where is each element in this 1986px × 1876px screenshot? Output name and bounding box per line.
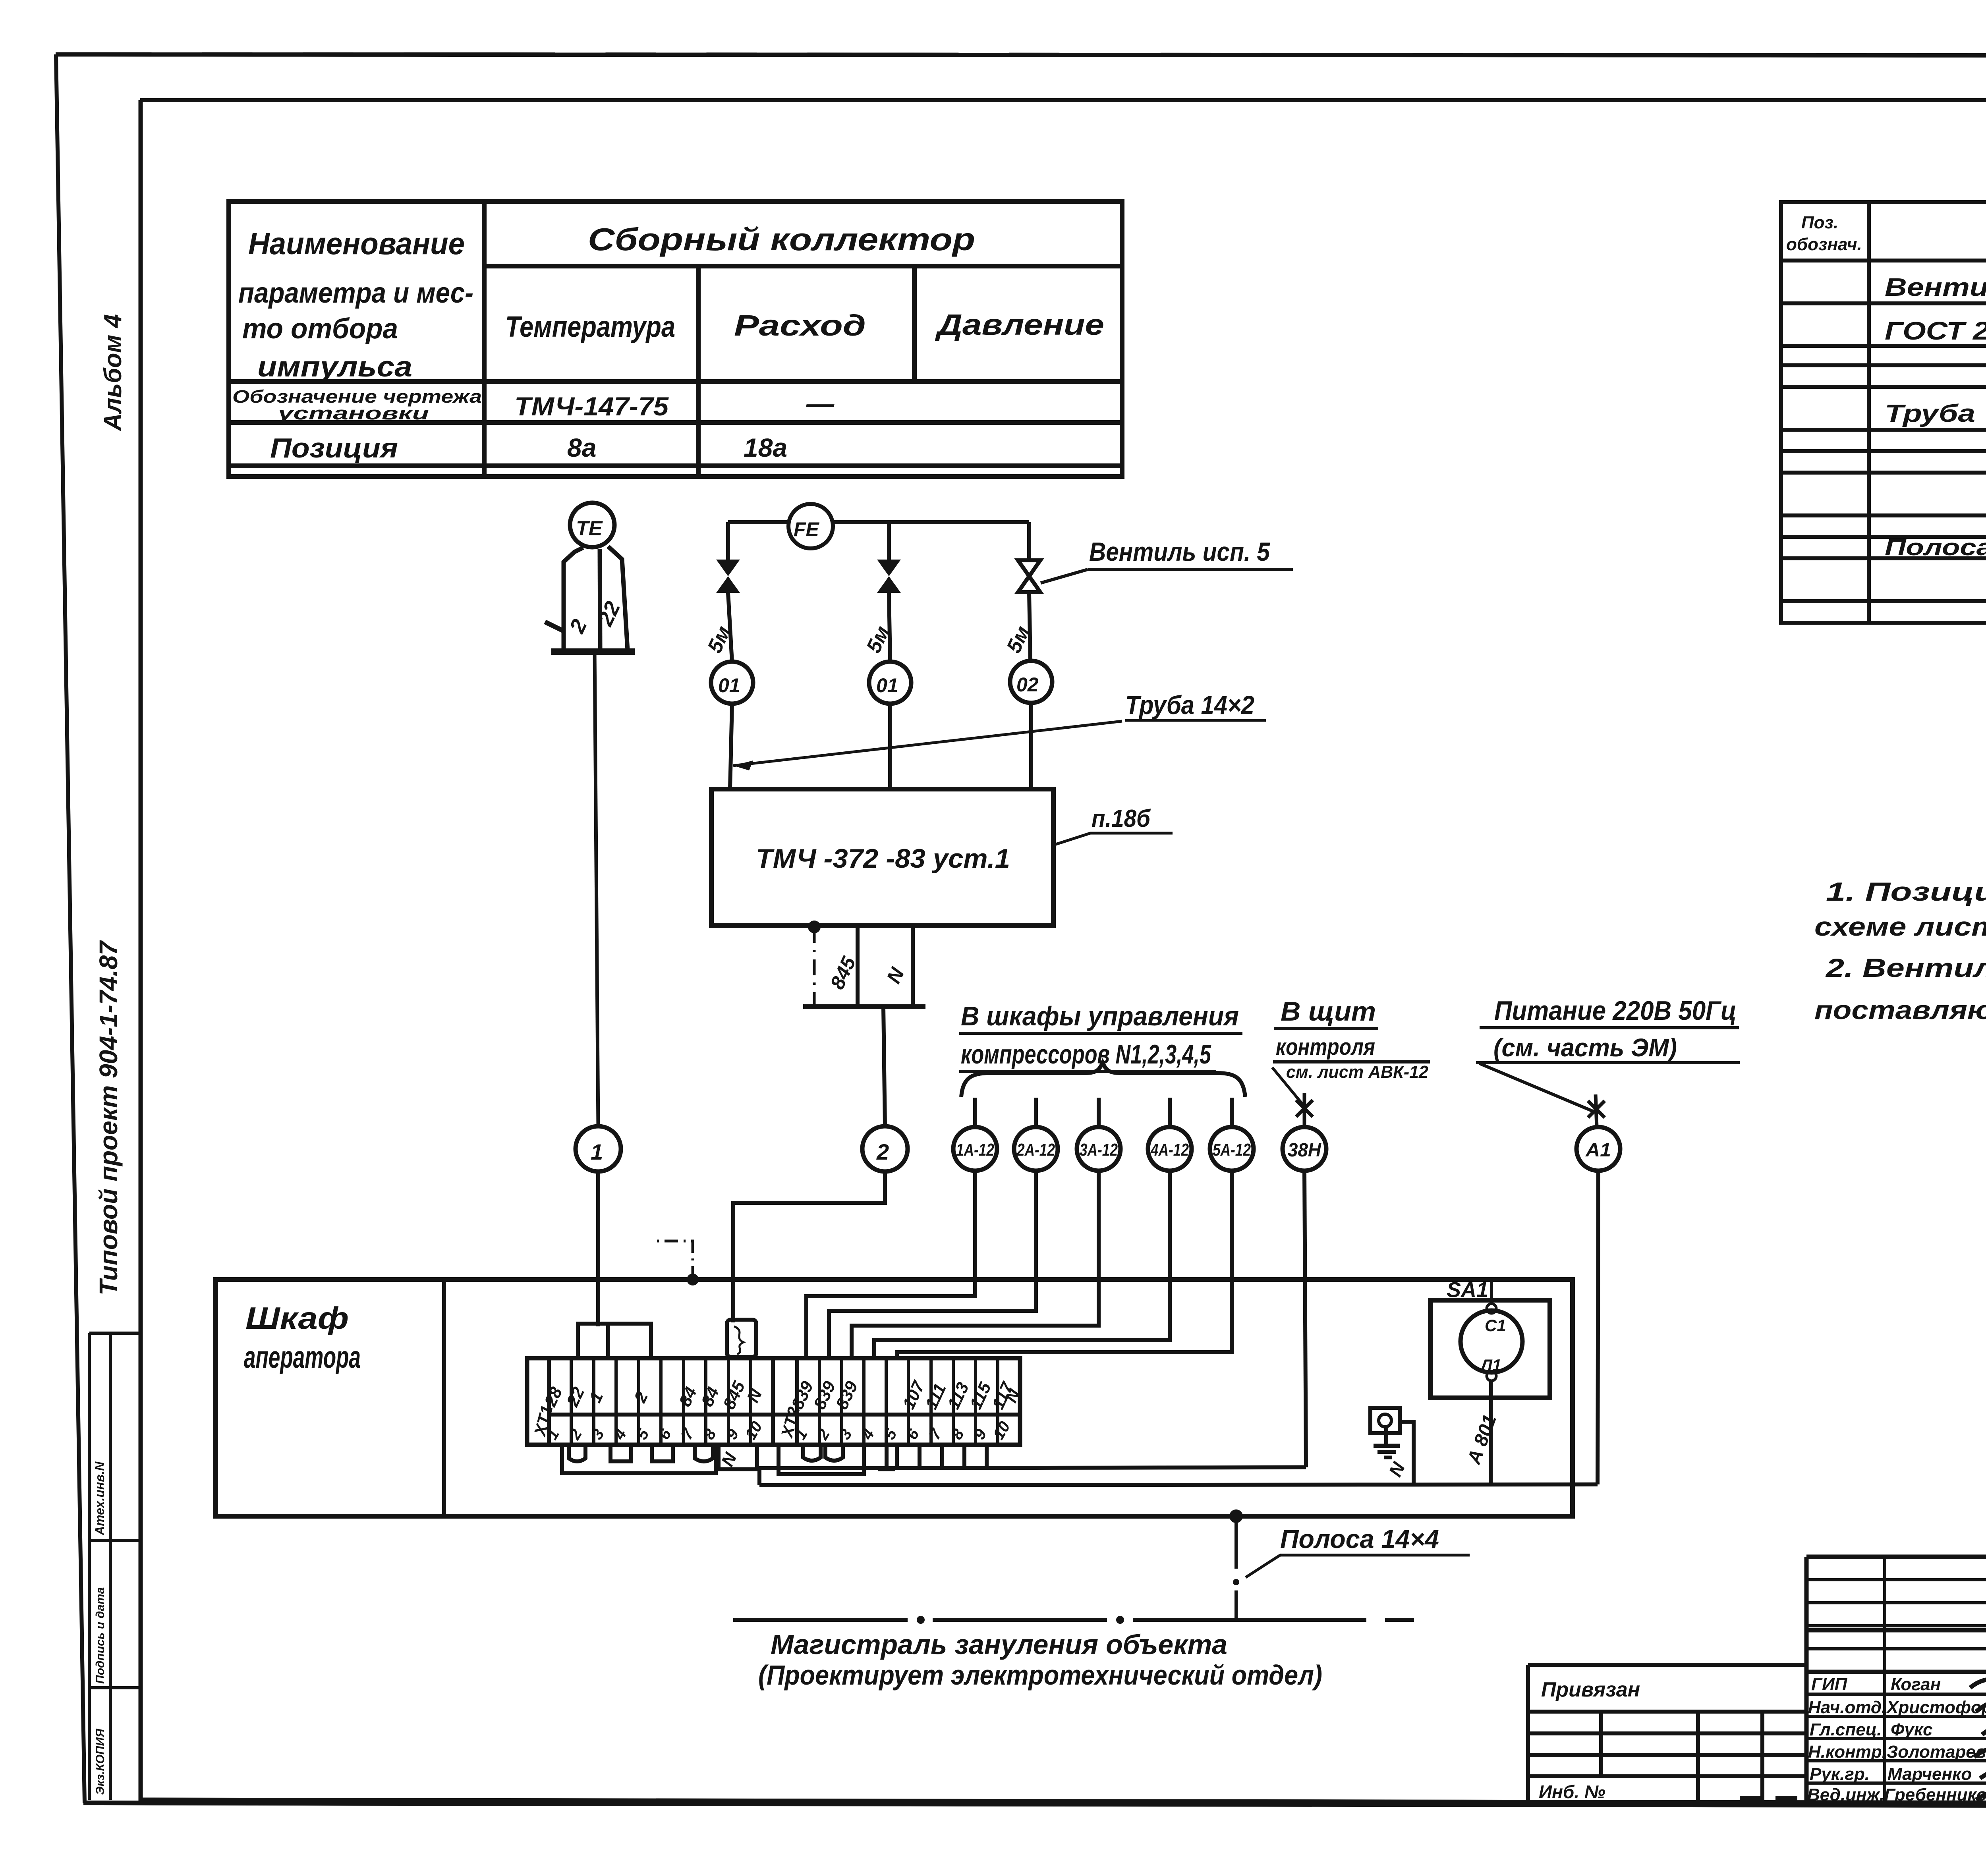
brace stub to 2А-12 bbox=[1034, 1098, 1038, 1127]
svg-text:Фукс: Фукс bbox=[1891, 1720, 1933, 1739]
shield dash-dot drop from box bbox=[813, 927, 816, 1007]
attachment table Привязан bbox=[1528, 1665, 1806, 1802]
terminal strip outline bbox=[527, 1358, 1020, 1445]
pipe branch 1 lower segment bbox=[730, 704, 732, 789]
svg-text:Подпись и дата: Подпись и дата bbox=[94, 1587, 107, 1684]
svg-text:Христофоров: Христофоров bbox=[1886, 1698, 1986, 1717]
svg-text:импульса: импульса bbox=[257, 351, 412, 383]
svg-text:установки: установки bbox=[277, 403, 429, 423]
svg-text:Шкаф: Шкаф bbox=[245, 1301, 349, 1336]
pipe branch 3 lower segment bbox=[1029, 703, 1033, 789]
wire А1 down bbox=[1598, 1171, 1598, 1484]
valve V3 (open, Вентиль исп.5) bbox=[1018, 560, 1040, 592]
svg-text:ГОСТ 23230-78: ГОСТ 23230-78 bbox=[1885, 317, 1986, 345]
svg-text:Полоса 14×4: Полоса 14×4 bbox=[1885, 535, 1986, 560]
svg-text:ТМЧ -372 -83 уст.1: ТМЧ -372 -83 уст.1 bbox=[756, 843, 1010, 874]
sheet outer border left bbox=[56, 54, 85, 1803]
svg-text:Н.контр.: Н.контр. bbox=[1808, 1742, 1887, 1762]
device box ТМЧ-372-83 уст.1 bbox=[711, 789, 1053, 926]
strip conductor down from dot bbox=[1234, 1516, 1238, 1569]
XT1 terminal numbers (rotated) bbox=[543, 1419, 766, 1443]
shield housing box with squiggle bbox=[727, 1320, 756, 1357]
brace stub to 5А-12 bbox=[1230, 1098, 1234, 1127]
wire cable2 down and left into shield box bbox=[733, 1172, 885, 1322]
instrument TE circle bbox=[570, 503, 614, 547]
svg-text:Труба: Труба bbox=[1885, 400, 1975, 427]
clamp stub bbox=[878, 1445, 895, 1469]
wire 38Н down bbox=[1304, 1171, 1306, 1467]
svg-text:компрессоров N1,2,3,4,5: компрессоров N1,2,3,4,5 bbox=[961, 1039, 1211, 1069]
curly brace over compressor cables bbox=[961, 1063, 1245, 1097]
svg-text:Привязан: Привязан bbox=[1541, 1678, 1640, 1701]
earth electrode box bbox=[1370, 1408, 1400, 1433]
pipe branch 2 upper segment bbox=[887, 522, 891, 562]
cabinet divider bbox=[442, 1280, 446, 1516]
svg-text:Поз.: Поз. bbox=[1801, 213, 1838, 232]
impulse pipe header line bbox=[728, 520, 1029, 524]
svg-text:—: — bbox=[806, 388, 835, 419]
box output wire 845 bbox=[856, 926, 860, 1007]
svg-text:02: 02 bbox=[1016, 674, 1039, 696]
lamp C1/Л1 circle bbox=[1461, 1310, 1522, 1372]
brace stub to 3А-12 bbox=[1097, 1098, 1101, 1127]
signature rows text bbox=[1807, 1675, 1986, 1805]
svg-text:(см. часть ЭМ): (см. часть ЭМ) bbox=[1493, 1033, 1677, 1062]
connector housing box B on strip bbox=[608, 1324, 651, 1358]
pipe branch 2 lower segment bbox=[888, 704, 892, 789]
cable circle 4А-12 bbox=[1148, 1127, 1192, 1171]
svg-text:2: 2 bbox=[876, 1139, 889, 1164]
svg-text:Типовой проект 904-1-74.87: Типовой проект 904-1-74.87 bbox=[94, 940, 123, 1295]
svg-text:38Н: 38Н bbox=[1288, 1140, 1321, 1161]
operator cabinet rectangle bbox=[216, 1280, 1573, 1516]
svg-text:В щит: В щит bbox=[1281, 996, 1376, 1027]
cable circle 1А-12 bbox=[953, 1127, 997, 1171]
svg-text:5А-12: 5А-12 bbox=[1213, 1140, 1251, 1160]
svg-text:Давление: Давление bbox=[935, 308, 1104, 341]
terminal strip row divider bbox=[549, 1413, 1020, 1417]
svg-text:параметра и мес-: параметра и мес- bbox=[238, 277, 473, 309]
svg-text:В шкафы управления: В шкафы управления bbox=[961, 1001, 1239, 1031]
svg-text:Марченко: Марченко bbox=[1887, 1764, 1972, 1784]
svg-text:обознач.: обознач. bbox=[1786, 235, 1862, 254]
N box stub to bus bbox=[757, 1469, 761, 1485]
svg-text:Рук.гр.: Рук.гр. bbox=[1810, 1764, 1870, 1784]
sheet outer border bottom bbox=[83, 1803, 1986, 1806]
sheet outer border top bbox=[56, 54, 1986, 56]
under-strip clamp bracket XT1 bbox=[562, 1445, 716, 1473]
orifice cable circle 01 (branch2) bbox=[869, 662, 911, 704]
revision grid bbox=[1806, 1557, 1986, 1672]
title block outer bbox=[1806, 1557, 1986, 1804]
svg-text:(Проектирует электротехническ: (Проектирует электротехнический отдел) bbox=[758, 1660, 1322, 1691]
svg-text:ТМЧ-147-75: ТМЧ-147-75 bbox=[514, 392, 669, 421]
svg-text:поставляются комплектно с п: поставляются комплектно с прибором поз.1… bbox=[1814, 995, 1986, 1025]
pipe branch 3 mid segment with 5м bbox=[1029, 592, 1030, 661]
svg-text:Вед.инж.: Вед.инж. bbox=[1807, 1785, 1884, 1805]
wire 3А-12 staircase to XT2:3 bbox=[852, 1171, 1099, 1358]
svg-text:Расход: Расход bbox=[734, 309, 866, 342]
materials table frame bbox=[1781, 202, 1986, 623]
svg-text:1. Позиции приборов указаны: 1. Позиции приборов указаны согласно bbox=[1826, 877, 1986, 906]
clamp U 6 bbox=[825, 1445, 843, 1461]
wire TE pocket down to cable circle 1 bbox=[595, 652, 598, 1126]
svg-text:01: 01 bbox=[876, 674, 898, 697]
svg-text:Труба 14×2: Труба 14×2 bbox=[1125, 690, 1254, 720]
pipe branch 3 upper segment bbox=[1027, 522, 1031, 562]
cable circle А1 bbox=[1576, 1127, 1620, 1171]
svg-text:18а: 18а bbox=[744, 433, 787, 462]
wire 2А-12 staircase to XT2:2 bbox=[829, 1171, 1036, 1358]
XT2 wire labels (rotated) bbox=[788, 1378, 1024, 1412]
leader to 38Н crossing mark bbox=[1272, 1067, 1304, 1106]
svg-text:Гребенникова: Гребенникова bbox=[1884, 1785, 1986, 1805]
valve V2 (shaded) bbox=[877, 560, 901, 593]
clamp U 2 bbox=[610, 1445, 631, 1461]
clamp U 1 bbox=[569, 1445, 585, 1461]
pipe branch 2 mid segment with 5м bbox=[889, 593, 890, 662]
svg-text:1: 1 bbox=[591, 1139, 603, 1164]
switch box SA1 bbox=[1430, 1300, 1550, 1398]
svg-text:Гл.спец.: Гл.спец. bbox=[1810, 1720, 1882, 1739]
svg-text:аператора: аператора bbox=[244, 1339, 361, 1374]
pipe branch 1 upper segment bbox=[726, 522, 730, 562]
svg-text:схеме лист АТХ-4.: схеме лист АТХ-4. bbox=[1814, 912, 1986, 941]
wire bar to cable circle 2 bbox=[883, 1007, 885, 1126]
brace stub to 1А-12 bbox=[973, 1098, 977, 1127]
cable circle 3А-12 bbox=[1077, 1127, 1121, 1171]
cable circle 1 bbox=[576, 1126, 621, 1172]
svg-text:Инб. №: Инб. № bbox=[1539, 1781, 1605, 1802]
terminal block XT1 label cell bbox=[547, 1358, 551, 1445]
null bus 38Н to N terminal bbox=[757, 1467, 1306, 1468]
svg-text:Вентиль исп. 5 dу 15: Вентиль исп. 5 dу 15 bbox=[1885, 273, 1986, 301]
svg-text:Температура: Температура bbox=[505, 310, 675, 343]
leader to А1 crossing mark bbox=[1480, 1063, 1593, 1111]
svg-text:FЕ: FЕ bbox=[794, 518, 820, 540]
clamp U 5 bbox=[803, 1445, 821, 1461]
svg-text:то отбора: то отбора bbox=[242, 313, 398, 345]
N terminal box under XT1 bbox=[719, 1445, 757, 1469]
wire 5А-12 staircase to XT2:5 bbox=[897, 1171, 1232, 1358]
grounding dot on cabinet bottom bbox=[1229, 1509, 1243, 1523]
svg-text:Наименование: Наименование bbox=[248, 226, 465, 261]
shield dash-dot corner at cabinet top bbox=[687, 1274, 699, 1285]
inner frame bottom bbox=[141, 1800, 1986, 1804]
svg-text:ГИП: ГИП bbox=[1811, 1675, 1848, 1694]
instrument FE circle bbox=[788, 504, 833, 548]
cable gather bar under box bbox=[803, 1004, 925, 1009]
valve V1 (shaded) bbox=[716, 560, 740, 593]
svg-text:2. Вентили, затушеванные по: 2. Вентили, затушеванные по схеме, bbox=[1825, 953, 1986, 982]
crossing mark on А1 stub bbox=[1588, 1094, 1605, 1127]
XT2 terminal numbers (rotated) bbox=[792, 1419, 1014, 1443]
null bus А1/ground/N bbox=[759, 1484, 1598, 1485]
crossing mark on 38Н stub bbox=[1296, 1093, 1313, 1127]
wire cable1 down to terminal box bbox=[596, 1172, 600, 1326]
cable circle 2 bbox=[862, 1126, 908, 1172]
clamp U 4 bbox=[695, 1445, 713, 1461]
svg-text:Экз.КОПИЯ: Экз.КОПИЯ bbox=[94, 1728, 107, 1795]
connector housing box A on strip bbox=[578, 1324, 608, 1358]
thermowell pocket outline bbox=[564, 546, 628, 650]
parameter table frame bbox=[229, 201, 1122, 477]
svg-text:01: 01 bbox=[718, 674, 740, 697]
svg-text:А1: А1 bbox=[1585, 1140, 1611, 1161]
svg-text:8а: 8а bbox=[567, 433, 596, 462]
signature squiggles bbox=[1970, 1679, 1986, 1800]
svg-text:п.18б: п.18б bbox=[1092, 805, 1151, 832]
svg-text:контроля: контроля bbox=[1276, 1034, 1375, 1060]
orifice cable circle 01 (branch1) bbox=[711, 662, 753, 704]
lamp terminal bottom bbox=[1487, 1371, 1496, 1381]
XT1 terminal cells bbox=[571, 1358, 751, 1445]
terminal block XT2 label cell bbox=[771, 1358, 775, 1445]
cable circle 2А-12 bbox=[1014, 1127, 1058, 1171]
thermowell lead tick 1 bbox=[545, 622, 564, 631]
thermowell base plate bbox=[551, 648, 635, 655]
svg-text:ТЕ: ТЕ bbox=[576, 517, 603, 540]
svg-text:Альбом 4: Альбом 4 bbox=[99, 314, 127, 432]
brace stub to 4А-12 bbox=[1168, 1098, 1172, 1127]
orifice cable circle 02 (branch3) bbox=[1010, 661, 1052, 703]
inner frame left bbox=[139, 100, 143, 1801]
bottom-left margin table bbox=[89, 1333, 140, 1800]
svg-text:Атех.инв.N: Атех.инв.N bbox=[93, 1461, 107, 1536]
wire 4А-12 staircase to XT2:4 bbox=[874, 1171, 1170, 1358]
signature table rows bbox=[1806, 1672, 1986, 1804]
XT1 wire labels (rotated) bbox=[541, 1378, 766, 1412]
svg-text:Питание 220В 50Гц: Питание 220В 50Гц bbox=[1494, 996, 1737, 1026]
clamp U 3 bbox=[652, 1445, 673, 1461]
lamp terminal top bbox=[1487, 1304, 1496, 1313]
inner frame top bbox=[140, 98, 1986, 102]
stub SA1 to cabinet top bbox=[1490, 1280, 1493, 1304]
svg-text:Вентиль исп. 5: Вентиль исп. 5 bbox=[1089, 537, 1270, 566]
wire Л1 down labelled А801 bbox=[1491, 1381, 1491, 1485]
svg-text:Магистраль зануления объект: Магистраль зануления объекта bbox=[771, 1629, 1227, 1660]
svg-text:Позиция: Позиция bbox=[270, 432, 398, 463]
under-strip wires XT2 5..9 to null bus bbox=[897, 1445, 987, 1467]
svg-text:см. лист АВК-12: см. лист АВК-12 bbox=[1286, 1062, 1429, 1082]
box output wire N bbox=[911, 926, 915, 1007]
svg-text:Нач.отд.: Нач.отд. bbox=[1808, 1698, 1886, 1717]
svg-text:Золотарева: Золотарева bbox=[1887, 1742, 1986, 1762]
cable circle 38Н bbox=[1283, 1127, 1326, 1171]
cable circle 5А-12 bbox=[1210, 1127, 1254, 1171]
wire 1А-12 staircase to XT2:1 bbox=[806, 1171, 975, 1358]
svg-text:1А-12: 1А-12 bbox=[956, 1140, 994, 1160]
ground symbol bbox=[1384, 1428, 1388, 1446]
earth box link to null bus bbox=[1400, 1422, 1414, 1485]
under-strip clamp bracket XT2 bbox=[779, 1445, 864, 1474]
svg-text:Сборный коллектор: Сборный коллектор bbox=[588, 222, 975, 257]
svg-text:4А-12: 4А-12 bbox=[1150, 1140, 1189, 1160]
junction dot on box bottom bbox=[808, 921, 821, 933]
svg-text:SА1: SА1 bbox=[1447, 1278, 1488, 1302]
null main dash-dot line bbox=[733, 1618, 908, 1622]
svg-text:3А-12: 3А-12 bbox=[1080, 1140, 1118, 1160]
XT2 terminal cells bbox=[819, 1358, 998, 1445]
svg-text:2А-12: 2А-12 bbox=[1016, 1140, 1055, 1160]
svg-text:Коган: Коган bbox=[1891, 1675, 1941, 1694]
svg-text:Полоса 14×4: Полоса 14×4 bbox=[1280, 1524, 1439, 1554]
dash break before title block bbox=[1740, 1796, 1811, 1801]
svg-text:С1: С1 bbox=[1485, 1316, 1506, 1335]
pipe branch 1 mid segment with 5м bbox=[728, 593, 732, 662]
